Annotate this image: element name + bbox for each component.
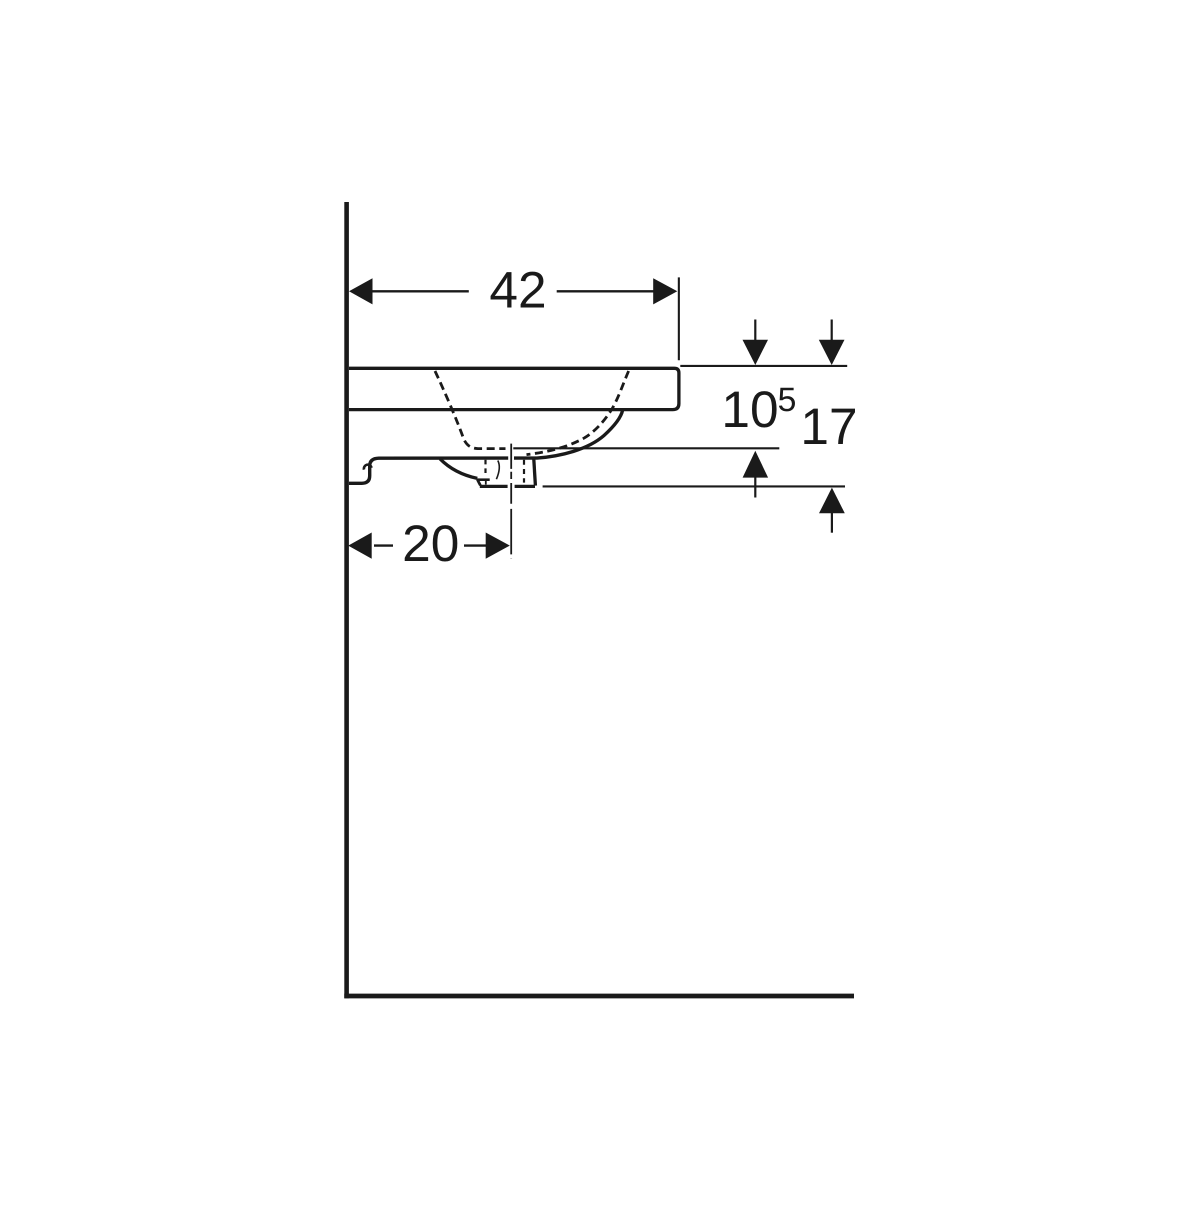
basin underside profile with rear bracket bbox=[349, 458, 508, 483]
dim 20 line right segment bbox=[464, 544, 487, 546]
bowl hidden contour right bbox=[527, 371, 629, 455]
drain boss left step bbox=[477, 480, 480, 486]
svg-text:42: 42 bbox=[489, 261, 546, 319]
bowl hidden contour left bbox=[435, 371, 506, 449]
hidden drain line right bbox=[523, 460, 525, 483]
dim 42 line left segment bbox=[371, 290, 469, 292]
extension line basin top bbox=[680, 365, 847, 367]
svg-text:20: 20 bbox=[402, 514, 459, 572]
extension line 42 right bbox=[678, 277, 680, 360]
drain boss bottom left bbox=[480, 485, 508, 488]
up arrow 1 (10.5) bbox=[743, 451, 769, 478]
dim 20 arrow right bbox=[486, 533, 510, 559]
extension line bottom (17 bottom) bbox=[543, 485, 845, 487]
floor line bbox=[344, 994, 854, 999]
dim 20 arrow left bbox=[348, 533, 372, 559]
underside flat line right of centerline and right curve bbox=[514, 410, 623, 458]
dim 42 line right segment bbox=[557, 290, 654, 292]
dim 20 line left segment bbox=[374, 544, 393, 546]
up arrow 2 (17) bbox=[819, 488, 845, 514]
dim 10.5 superscript bbox=[779, 388, 795, 412]
extension line mid (10.5 bottom) bbox=[513, 447, 779, 449]
drain boss left curve bbox=[440, 459, 477, 479]
svg-text:10: 10 bbox=[721, 380, 778, 438]
drain boss right edge bbox=[534, 459, 536, 485]
drain boss notch bbox=[485, 481, 487, 485]
dim 42 arrow left bbox=[349, 278, 373, 304]
drain inner arc bbox=[496, 461, 499, 480]
svg-text:17: 17 bbox=[800, 397, 857, 455]
dim 42 arrow right bbox=[653, 278, 677, 304]
down arrow 1 bbox=[743, 340, 769, 365]
down arrow 2 bbox=[819, 340, 845, 365]
rear lip hook bbox=[364, 465, 372, 470]
down arrow 2 tail bbox=[831, 320, 833, 342]
drain centerline bbox=[510, 444, 512, 559]
drain boss foot ledge bbox=[477, 478, 490, 481]
basin deck outline bbox=[349, 368, 679, 409]
wall line bbox=[344, 202, 349, 998]
up arrow 2 tail bbox=[831, 512, 833, 532]
drain boss bottom right bbox=[515, 485, 535, 488]
down arrow 1 tail bbox=[754, 320, 756, 342]
hidden drain line left bbox=[484, 460, 486, 476]
up arrow 1 tail bbox=[754, 477, 756, 498]
